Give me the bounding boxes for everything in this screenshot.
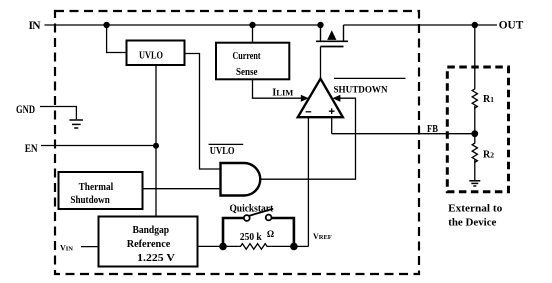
ground symbol (divider) (469, 181, 480, 186)
svg-text:1.225 V: 1.225 V (137, 252, 175, 264)
wire FB (332, 133, 475, 135)
label External to the Device (448, 203, 503, 229)
wire GND (40, 107, 76, 120)
node quickstart right (VREF) (290, 243, 298, 251)
svg-text:SHUTDOWN: SHUTDOWN (334, 86, 388, 96)
svg-text:Thermal: Thermal (79, 181, 114, 193)
svg-text:R2: R2 (483, 150, 494, 161)
label UVLO-bar over AND gate (209, 144, 244, 156)
svg-text:Ω: Ω (267, 229, 274, 239)
block Bandgap Reference (99, 217, 198, 267)
node junction on IN rail (pass transistor source) (317, 22, 323, 28)
wire non-inverting input to FB (331, 117, 333, 134)
wire VREF node to inverting stub (294, 245, 309, 247)
arrow shutdown into amp (332, 95, 340, 102)
wire UVLO bottom to bandgap enable (155, 65, 157, 217)
main device dashed border box (55, 11, 419, 274)
wire resistor to right node (271, 245, 294, 247)
svg-text:OUT: OUT (499, 19, 524, 31)
svg-text:Shutdown: Shutdown (70, 194, 109, 206)
svg-text:Sense: Sense (236, 66, 258, 78)
node quickstart left (219, 243, 227, 251)
svg-text:R1: R1 (483, 94, 494, 105)
resistor R1 (472, 88, 477, 108)
block Current Sense (216, 43, 289, 80)
wire IN to UVLO input (107, 25, 127, 53)
op-amp U1 error amplifier (298, 79, 343, 118)
svg-text:UVLO: UVLO (139, 50, 163, 62)
svg-text:ILIM: ILIM (272, 88, 293, 99)
wire UVLO output to AND gate input (185, 54, 221, 170)
svg-text:VREF: VREF (313, 232, 332, 241)
svg-text:EN: EN (25, 143, 39, 155)
wire AND output to shutdown input of error amp (260, 98, 355, 179)
wire FB node to R2 (474, 134, 476, 143)
wire IN rail (45, 24, 321, 26)
node EN junction (153, 143, 159, 149)
node OUT junction (472, 22, 478, 28)
block UVLO U2 (127, 41, 185, 66)
svg-text:Current: Current (233, 50, 261, 62)
wire VIN to bandgap (81, 246, 99, 248)
switch Quickstart (223, 209, 294, 247)
wire thermal shutdown to AND gate input (143, 188, 221, 190)
transistor Q1 pass PMOS (316, 25, 348, 78)
svg-text:Quickstart: Quickstart (229, 203, 273, 215)
wire IN to current sense input (252, 25, 254, 43)
node junction on IN rail (current sense tap) (249, 22, 255, 28)
svg-text:External to: External to (448, 203, 503, 215)
wire current sense output ILIM to error amp (253, 79, 302, 98)
wire R1 to FB node (474, 106, 476, 134)
svg-text:250 k: 250 k (240, 231, 263, 243)
node FB junction (471, 130, 478, 137)
svg-text:Reference: Reference (127, 238, 171, 250)
svg-text:the Device: the Device (448, 216, 496, 228)
resistor R2 (472, 143, 477, 163)
svg-text:UVLO: UVLO (210, 146, 235, 157)
svg-text:FB: FB (427, 124, 438, 135)
node junction on IN rail (UVLO tap) (103, 22, 109, 28)
svg-text:IN: IN (29, 20, 42, 32)
label SHUTDOWN with overline (334, 78, 406, 95)
wire OUT down to divider (474, 25, 476, 88)
arrow ILIM into amp (301, 95, 309, 102)
wire R2 to ground (474, 160, 476, 181)
block Thermal Shutdown (59, 172, 143, 209)
svg-text:Bandgap: Bandgap (132, 224, 169, 236)
resistor 250k (238, 244, 271, 250)
wire EN (41, 145, 156, 147)
external dashed box (447, 67, 508, 192)
wire inverting input to VREF (307, 117, 309, 246)
wire drain to OUT (344, 24, 498, 26)
wire bandgap output to quickstart node (198, 245, 239, 247)
gate AND U3 (221, 163, 261, 196)
svg-text:VIN: VIN (60, 244, 73, 253)
ground symbol (GND pin) (69, 120, 83, 128)
svg-text:GND: GND (16, 104, 35, 116)
